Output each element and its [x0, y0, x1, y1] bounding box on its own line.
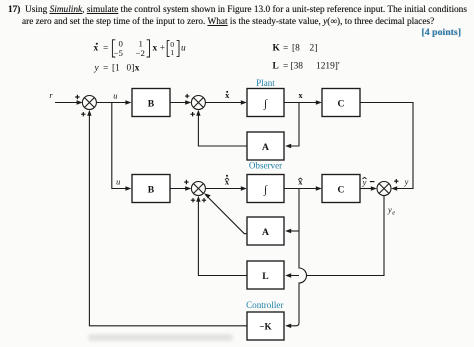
block integrator (plant) — [247, 89, 284, 117]
wire x branch down to plant A — [287, 103, 300, 147]
svg-text:=: = — [103, 44, 108, 54]
summing junction J2 — [191, 96, 205, 110]
node x-hat label — [298, 178, 303, 187]
svg-text:1219]′: 1219]′ — [316, 61, 340, 71]
svg-text:Observer: Observer — [249, 161, 282, 171]
summing junction J1 — [82, 96, 96, 110]
svg-text:r: r — [49, 91, 53, 100]
svg-text:u: u — [113, 92, 117, 101]
svg-text:0: 0 — [119, 38, 124, 48]
wire observer A output diagonal to J3 — [205, 195, 247, 234]
svg-text:+: + — [160, 44, 165, 54]
equation gain K — [273, 44, 318, 54]
svg-text:u: u — [181, 44, 186, 54]
wire C output to J4 via right side — [360, 103, 413, 189]
svg-text:K: K — [273, 44, 281, 54]
wire branch into observer A — [287, 230, 300, 232]
svg-text:A: A — [262, 142, 269, 153]
wire minus K output to J1 — [89, 112, 247, 326]
block L (observer gain) — [247, 261, 284, 289]
svg-text:x: x — [153, 44, 158, 54]
wire ye from J4 down to L input — [287, 196, 385, 276]
plus sign at J2 left input — [185, 94, 189, 98]
matrix brackets for state equation — [112, 40, 115, 57]
points label — [422, 27, 461, 38]
node x-dot label — [225, 91, 230, 100]
block C (plant output matrix) — [322, 89, 360, 117]
wire B to J2 — [170, 102, 190, 104]
wire plant A output to J2 — [198, 112, 247, 147]
svg-text:y: y — [362, 178, 367, 187]
svg-text:1: 1 — [170, 48, 174, 57]
equation x-dot state equation — [94, 38, 187, 58]
svg-text:[38: [38 — [291, 61, 304, 71]
wire r input — [55, 102, 81, 104]
svg-text:y: y — [94, 64, 100, 74]
svg-text:=: = — [283, 61, 288, 71]
plus sign at J2 bottom input — [190, 112, 194, 116]
wire J2 to integrator — [205, 102, 245, 104]
svg-text:L: L — [262, 271, 268, 282]
svg-text:x: x — [298, 91, 303, 100]
svg-text:e: e — [392, 209, 395, 216]
plus sign at J1 bottom input — [81, 112, 85, 116]
svg-text:Plant: Plant — [256, 78, 275, 88]
svg-text:y: y — [404, 178, 409, 187]
svg-text:[1: [1 — [112, 64, 120, 74]
svg-text:2]: 2] — [310, 44, 318, 54]
wire integrator to C with x branch — [284, 102, 321, 104]
plus sign at J4 right input — [394, 179, 398, 183]
block B (plant input matrix) — [132, 89, 170, 117]
svg-text:C: C — [338, 184, 345, 195]
problem statement line 2 — [22, 17, 434, 27]
node x-hat-dot label — [225, 175, 230, 187]
wire J1 to B — [96, 102, 129, 104]
plus sign at J3 bottom input — [191, 198, 195, 202]
wire u tap to observer B — [112, 103, 130, 189]
svg-text:L: L — [273, 61, 279, 71]
svg-text:−2: −2 — [136, 48, 145, 58]
svg-text:x: x — [135, 64, 140, 74]
svg-text:x: x — [94, 44, 99, 54]
block A (plant system matrix) — [247, 132, 284, 160]
block C (observer) — [322, 175, 360, 203]
svg-text:Controller: Controller — [246, 300, 283, 310]
svg-text:A: A — [262, 227, 269, 238]
svg-text:B: B — [148, 184, 155, 195]
summing junction J3 — [191, 182, 205, 196]
node y-hat label — [362, 177, 367, 187]
svg-text:[8: [8 — [292, 44, 300, 54]
wire observer integrator to observer C with x-hat branch — [284, 188, 321, 190]
plus sign at J3 diagonal input — [202, 198, 206, 202]
wire J3 to observer integrator — [205, 188, 245, 190]
wire observer B to J3 — [170, 188, 190, 190]
block A (observer) — [247, 217, 284, 245]
svg-text:C: C — [338, 98, 345, 109]
block minus K (controller gain) — [247, 312, 284, 340]
minus sign at J4 left input — [370, 181, 375, 183]
svg-text:0]: 0] — [127, 64, 135, 74]
svg-text:u: u — [116, 178, 120, 187]
svg-text:1: 1 — [139, 38, 143, 48]
svg-text:−K: −K — [259, 322, 272, 332]
wire x-hat branch down to observer A, with hop over ye line, to minus K — [299, 189, 307, 284]
problem statement line 1 — [8, 5, 467, 15]
node ye label — [387, 206, 395, 217]
block integrator (observer) — [247, 175, 284, 203]
svg-text:=: = — [103, 64, 108, 74]
equation output y — [94, 64, 140, 74]
plus sign at J1 top input — [75, 95, 79, 99]
block B (observer) — [132, 175, 170, 203]
svg-text:=: = — [283, 44, 288, 54]
wire L output to J3 — [198, 198, 247, 276]
svg-text:B: B — [148, 98, 155, 109]
wire observer C to J4 — [360, 188, 376, 190]
summing junction J4 — [377, 182, 391, 196]
equation observer gain L — [273, 61, 340, 71]
plus sign at J3 left input — [184, 180, 188, 184]
